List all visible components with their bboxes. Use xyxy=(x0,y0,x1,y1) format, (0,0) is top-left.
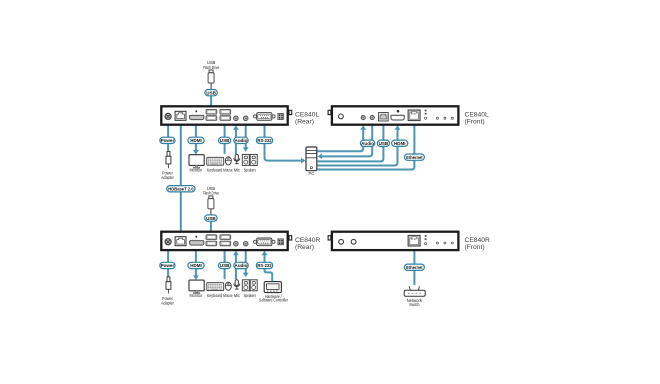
svg-text:USB: USB xyxy=(220,263,230,268)
wire: HDMI port to monitor (CE840R) xyxy=(195,251,197,277)
svg-text:Speakers: Speakers xyxy=(244,168,256,173)
svg-text:Monitor: Monitor xyxy=(190,168,203,173)
svg-text:Mic: Mic xyxy=(234,293,240,298)
arrow: into CE840L rear audio jack 1 (up) xyxy=(233,125,239,130)
caption: Power Adapter (CE840R) xyxy=(161,296,174,305)
svg-text:USB: USB xyxy=(379,141,389,146)
arrow: into PC mic-in (left) xyxy=(318,154,323,160)
audio jack mic (CE840L rear) xyxy=(234,116,239,121)
svg-text:USB: USB xyxy=(206,90,216,95)
caption: Hardware / Software Controller xyxy=(259,294,289,303)
CE840L front panel body xyxy=(328,106,458,124)
device label: CE840L (Rear) xyxy=(295,112,319,126)
wire: CE840R front Ethernet to network switch xyxy=(413,251,415,286)
arrow: into PC serial port (right) xyxy=(301,158,306,164)
device label: CE840R (Front) xyxy=(465,237,490,251)
svg-text:HDBaseT 2.0: HDBaseT 2.0 xyxy=(168,187,194,192)
RJ45 HDBaseT port (CE840L rear) xyxy=(175,111,186,120)
wire: audio-out jack to speakers (CE840R) xyxy=(245,251,247,274)
front holes (CE840R front) xyxy=(436,242,453,244)
audio jack 1 (CE840L front) xyxy=(361,116,365,120)
wire: PC LAN to CE840L front Ethernet xyxy=(318,125,415,169)
power adapter icon (CE840L) xyxy=(166,152,171,169)
HDMI port (CE840L front) xyxy=(391,110,404,120)
label oval: RS-232 (CE840R rear) xyxy=(256,262,272,268)
wire: USB flash drive to CE840L rear USB port xyxy=(210,96,212,106)
audio jack speaker (CE840R rear) xyxy=(243,241,248,246)
USB Type-B port (CE840L front) xyxy=(379,113,389,122)
svg-text:HDMI: HDMI xyxy=(190,263,202,268)
CE840R front panel body xyxy=(328,232,458,250)
front button 1 (CE840R front) xyxy=(339,239,344,244)
label oval: HDMI (CE840L front) xyxy=(392,140,408,146)
CE840R rear panel body xyxy=(161,232,291,250)
HDMI port (CE840L rear) xyxy=(190,110,204,119)
arrow: to speakers (down, CE840L) xyxy=(243,147,249,152)
RS-232 DB9 port (CE840L rear) xyxy=(254,113,276,121)
USB port stack 1 (CE840R rear) xyxy=(206,235,217,246)
svg-text:RS-232: RS-232 xyxy=(257,263,272,268)
USB flash drive icon (bottom) xyxy=(208,196,214,215)
wire: CE840L front audio jack 2 to PC mic-in xyxy=(322,125,373,156)
mouse icon (CE840L) xyxy=(225,157,231,165)
svg-text:Mic: Mic xyxy=(234,168,240,173)
monitor icon (CE840R) xyxy=(189,280,204,294)
svg-text:Audio: Audio xyxy=(235,138,248,143)
Ethernet RJ45 port (CE840L front) xyxy=(408,110,420,121)
PC tower icon xyxy=(306,147,317,171)
wire: audio-out jack to speakers (CE840L) xyxy=(245,125,247,148)
DIP switch block (CE840L rear) xyxy=(278,114,283,120)
wire: HDMI port to monitor (CE840L) xyxy=(195,125,197,151)
USB port stack 1 (CE840L rear) xyxy=(206,109,217,120)
speakers icon (CE840L) xyxy=(242,154,257,165)
HDMI port (CE840R rear) xyxy=(190,236,204,245)
DIP switch block (CE840R rear) xyxy=(278,239,283,245)
arrow: to monitor (down, CE840R) xyxy=(193,275,199,280)
label oval: HDMI (CE840L rear) xyxy=(188,137,204,143)
CE840L rear panel body xyxy=(161,106,291,124)
caption: Power Adapter (CE840L) xyxy=(161,171,174,180)
wire: USB port to keyboard/mouse (CE840L) xyxy=(224,125,226,154)
svg-text:Mouse: Mouse xyxy=(223,293,233,298)
svg-text:Ethernet: Ethernet xyxy=(406,155,423,160)
label oval: HDMI (CE840R rear) xyxy=(188,262,204,268)
hardware/software controller icon xyxy=(264,282,281,293)
keyboard icon (CE840R) xyxy=(207,283,224,291)
mouse icon (CE840R) xyxy=(225,282,231,290)
svg-text:(Rear): (Rear) xyxy=(295,118,314,125)
USB port stack 2 (CE840L rear) xyxy=(220,109,231,120)
label oval: USB (CE840L rear) xyxy=(219,137,231,143)
USB port stack 2 (CE840R rear) xyxy=(220,235,231,246)
wire: mic to audio-in jack (CE840L) xyxy=(235,130,237,155)
wire: HDBaseT link CE840L to CE840R xyxy=(180,125,182,231)
wire: USB port to keyboard/mouse (CE840R) xyxy=(224,251,226,280)
svg-text:Software Controller: Software Controller xyxy=(259,298,289,303)
svg-text:Power: Power xyxy=(161,263,175,268)
power jack (CE840L rear) xyxy=(165,113,171,119)
caption: USB Flash Drive (bottom) xyxy=(203,186,220,196)
svg-text:Adapter: Adapter xyxy=(161,175,174,180)
device label: CE840R (Rear) xyxy=(295,237,320,251)
svg-text:RS-232: RS-232 xyxy=(257,138,272,143)
svg-text:(Front): (Front) xyxy=(465,118,485,125)
USB flash drive icon (top) xyxy=(208,70,214,89)
LED column (CE840R front) xyxy=(425,235,427,245)
svg-text:USB: USB xyxy=(220,138,230,143)
svg-text:Adapter: Adapter xyxy=(161,300,174,305)
svg-text:(Front): (Front) xyxy=(465,244,485,251)
label oval: Audio (CE840R rear) xyxy=(234,262,248,268)
power adapter icon (CE840R) xyxy=(166,277,171,294)
svg-text:Keyboard: Keyboard xyxy=(207,168,223,173)
arrow: into CE840L front HDMI (up) xyxy=(395,125,401,130)
label oval: RS-232 (CE840L rear) xyxy=(256,137,272,143)
label oval: Ethernet (CE840R front) xyxy=(404,264,424,270)
caption: USB Flash Drive (top) xyxy=(203,60,220,70)
wire: power jack to power adapter (CE840L) xyxy=(167,125,169,151)
front buttons/holes (CE840L front) xyxy=(436,117,453,119)
label oval: Audio (CE840L rear) xyxy=(234,137,248,143)
wire: USB flash drive to CE840R rear USB port xyxy=(210,221,212,231)
svg-text:USB: USB xyxy=(206,216,216,221)
svg-text:Audio: Audio xyxy=(361,141,374,146)
device label: CE840L (Front) xyxy=(465,112,489,126)
wire: PC HDMI to CE840L front HDMI xyxy=(318,130,398,166)
svg-text:Keyboard: Keyboard xyxy=(207,293,223,298)
arrow: into CE840L front audio jack 1 (up) xyxy=(360,125,366,130)
arrow: to speakers (down, CE840R) xyxy=(243,273,249,278)
svg-text:Flash Drive: Flash Drive xyxy=(203,65,220,70)
monitor icon (CE840L) xyxy=(189,155,204,169)
arrow: into CE840R rear RS-232 port (up) xyxy=(262,251,268,256)
svg-text:Power: Power xyxy=(161,138,175,143)
svg-text:(Rear): (Rear) xyxy=(295,244,314,251)
svg-text:Ethernet: Ethernet xyxy=(406,265,423,270)
svg-text:HDMI: HDMI xyxy=(394,141,406,146)
wire: power jack to power adapter (CE840R) xyxy=(167,251,169,277)
LED column (CE840L front) xyxy=(425,109,427,119)
label oval: HDBaseT 2.0 link xyxy=(167,186,195,192)
wire: mic to audio-in jack (CE840R) xyxy=(235,255,237,280)
svg-text:Flash Drive: Flash Drive xyxy=(203,191,220,196)
WIRES LAYER xyxy=(168,96,414,286)
svg-text:HDMI: HDMI xyxy=(190,138,202,143)
microphone icon (CE840L) xyxy=(234,154,240,163)
speakers icon (CE840R) xyxy=(242,280,257,291)
label oval: USB (flash drive, CE840L) xyxy=(205,90,217,96)
label oval: Power (CE840R) xyxy=(160,262,175,268)
network switch icon xyxy=(404,286,425,296)
caption: Network Switch xyxy=(407,298,423,307)
RS-232 DB9 port (CE840R rear) xyxy=(254,238,276,246)
wire: RS-232 port to PC serial (CE840L) xyxy=(265,125,301,160)
svg-text:PC: PC xyxy=(309,171,315,176)
Ethernet RJ45 port (CE840R front) xyxy=(408,235,420,246)
svg-text:Monitor: Monitor xyxy=(190,293,203,298)
label oval: Audio (CE840L front) xyxy=(360,140,374,146)
front button 2 (CE840R front) xyxy=(351,239,356,244)
label oval: USB (CE840R rear) xyxy=(219,262,231,268)
microphone icon (CE840R) xyxy=(234,280,240,289)
svg-text:Mouse: Mouse xyxy=(223,168,233,173)
ARROWHEADS xyxy=(193,125,400,280)
label oval: USB (CE840L front) xyxy=(377,140,389,146)
svg-text:Audio: Audio xyxy=(235,263,248,268)
RJ45 HDBaseT port (CE840R rear) xyxy=(175,237,186,246)
label oval: Ethernet (CE840L front) xyxy=(404,154,424,160)
label oval: Power (CE840L) xyxy=(160,137,175,143)
svg-text:Speakers: Speakers xyxy=(244,293,256,298)
audio jack 2 (CE840L front) xyxy=(370,116,374,120)
arrow: into CE840R rear audio jack 1 (up) xyxy=(233,251,239,256)
keyboard icon (CE840L) xyxy=(207,157,224,165)
wire: PC USB to CE840L front USB-B xyxy=(318,125,384,161)
svg-text:Switch: Switch xyxy=(409,302,420,307)
wire: PC line-out to CE840L front audio jack 1 xyxy=(318,130,364,152)
label oval: USB (flash drive, CE840R) xyxy=(205,215,217,221)
power jack (CE840R rear) xyxy=(165,239,171,245)
wire: hardware/software controller to RS-232 port (CE840R) xyxy=(265,255,273,281)
audio jack speaker (CE840L rear) xyxy=(243,116,248,121)
audio jack mic (CE840R rear) xyxy=(234,241,239,246)
arrow: to monitor (down, CE840L) xyxy=(193,150,199,155)
grounding ring (CE840L front) xyxy=(339,114,344,119)
